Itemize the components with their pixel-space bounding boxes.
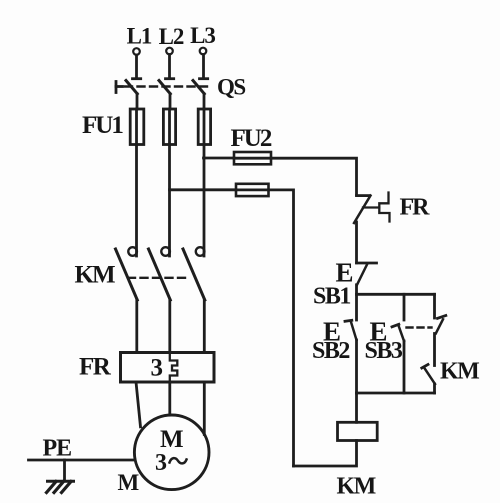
svg-text:M: M	[160, 426, 184, 453]
wire SB3 to bottom junction	[403, 341, 406, 393]
pushbutton SB3 normally-open (start)	[392, 324, 404, 341]
terminal circle L2	[166, 48, 173, 55]
wire FR heater phase2 to motor	[168, 382, 171, 415]
terminal circle L1	[133, 48, 140, 55]
contactor KM main contact pole 3	[183, 247, 205, 300]
wire SB1 to junction	[355, 285, 358, 320]
contactor KM mechanical link dashed line	[128, 277, 188, 279]
wire PE to motor frame	[29, 459, 136, 462]
pushbutton SB2 normally-open (start)	[345, 320, 357, 340]
svg-text:L2: L2	[159, 24, 184, 49]
wire KM pole2 to FR heater	[168, 300, 171, 353]
switch QS pole 1	[126, 79, 141, 94]
node junction top of parallel branch	[357, 293, 435, 296]
svg-text:QS: QS	[217, 75, 245, 100]
svg-text:KM: KM	[75, 262, 115, 289]
thermal relay FR element symbol	[363, 193, 390, 222]
wire QS pole 2 to fuse FU1b	[169, 94, 172, 109]
wire FR heater phase3 to motor	[203, 382, 206, 435]
heater element symbol inside FR box	[170, 353, 178, 383]
svg-text:FR: FR	[79, 354, 112, 381]
wire FR contact to SB1	[355, 222, 358, 263]
fuse FU1 phase 3	[198, 109, 210, 145]
svg-text:FU2: FU2	[231, 125, 272, 152]
wire KM pole3 to FR heater	[203, 300, 206, 353]
wire linked contact to KM auxiliary contact	[433, 334, 436, 366]
node branch to FU2b on phase2	[170, 188, 237, 191]
linked auxiliary contact (dashed-linked to SB3)	[436, 316, 446, 334]
svg-text:KM: KM	[337, 474, 376, 500]
contactor coil KM	[338, 422, 378, 440]
thermal overload relay FR heater box	[121, 353, 215, 383]
svg-text:SB2: SB2	[312, 338, 349, 364]
node branch to FU2a on phase3	[204, 157, 235, 160]
switch QS operating handle bar	[116, 82, 123, 93]
svg-text:3: 3	[155, 450, 167, 476]
wire FU2b to KM coil return (left control conductor)	[269, 190, 294, 466]
wire FR heater phase1 to motor	[136, 382, 141, 427]
wire KM pole1 to FR heater	[135, 300, 138, 353]
thermal relay FR normally-closed contact	[354, 196, 371, 224]
svg-text:L1: L1	[127, 24, 152, 49]
wire fuse FU1 phase3 to contactor KM pole3	[203, 145, 206, 257]
motor M circle	[134, 415, 209, 490]
fuse FU2a	[234, 152, 271, 164]
svg-text:KM: KM	[440, 359, 479, 385]
wire fuse FU1 phase2 to contactor KM pole2	[168, 145, 171, 257]
contactor KM main contact pole 2	[149, 247, 171, 300]
fuse FU1 phase 1	[130, 109, 144, 145]
wire L2 terminal to QS pole 2	[168, 55, 171, 79]
wire branch down to linked contact	[433, 294, 436, 318]
pushbutton SB1 normally-closed (stop)	[357, 263, 377, 285]
switch QS mechanical link dashed line	[125, 85, 209, 87]
svg-text:FU1: FU1	[82, 112, 123, 139]
dashed mechanical link SB3 to contact	[407, 326, 432, 328]
wire L1 terminal to QS pole 1	[135, 55, 138, 78]
wire KM aux to bottom junction	[433, 384, 436, 393]
terminal circle L3	[200, 48, 207, 55]
ground symbol earth connection	[47, 460, 74, 493]
switch QS pole 3	[193, 79, 208, 94]
wire QS pole 3 to fuse FU1c	[203, 94, 206, 109]
svg-text:PE: PE	[43, 436, 72, 462]
wire FU2a to FR contact	[271, 158, 357, 195]
wire fuse FU1 phase1 to contactor KM pole1	[135, 145, 138, 257]
svg-text:3: 3	[151, 355, 164, 382]
wire KM coil to return conductor	[294, 441, 357, 467]
contactor KM main contact pole 1	[116, 247, 138, 300]
wire branch down to SB3	[403, 294, 406, 320]
switch QS pole 2	[159, 79, 174, 94]
node junction bottom of parallel branch	[357, 392, 435, 395]
svg-text:SB1: SB1	[313, 284, 350, 310]
wire junction to KM coil	[355, 393, 358, 422]
fuse FU2b	[236, 184, 269, 196]
svg-text:SB3: SB3	[365, 338, 403, 364]
wire QS pole 1 to fuse FU1a	[136, 94, 139, 109]
contactor KM auxiliary self-holding contact	[422, 365, 435, 385]
wire SB2 to bottom junction	[355, 340, 358, 393]
svg-text:M: M	[118, 470, 140, 495]
tilde of 3~	[170, 458, 187, 463]
fuse FU1 phase 2	[163, 109, 175, 145]
svg-text:L3: L3	[190, 23, 215, 48]
wire L3 terminal to QS pole 3	[202, 55, 205, 79]
svg-text:FR: FR	[400, 195, 431, 221]
